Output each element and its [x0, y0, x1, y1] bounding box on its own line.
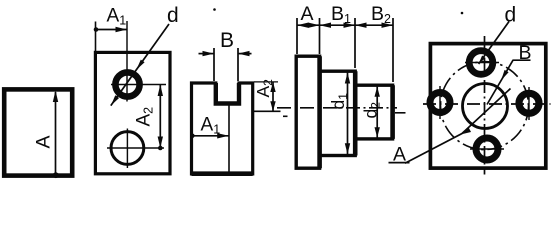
extension line B left (part 3) — [213, 48, 215, 81]
center line horizontal (part 5) — [423, 103, 551, 105]
arrowhead right at ext4 (part 4) — [382, 23, 394, 28]
hole ring bottom (part 5) — [476, 138, 498, 160]
arrowhead on leader at ring edge (part 2) — [136, 60, 144, 70]
arrowhead at leader end (part 2) — [111, 95, 119, 105]
hole ring right (part 5) — [519, 93, 539, 113]
svg-text:B: B — [220, 29, 234, 52]
step edge vertical (part 3) — [228, 104, 230, 173]
junction dot (part 1 dim A bottom) — [53, 172, 59, 178]
arrowhead down (part 4 d2) — [375, 127, 380, 137]
junction dot (part 2 A1 left) — [94, 27, 99, 32]
slot U profile thick (part 3) — [216, 83, 239, 104]
small right edge emphasis (part 4) — [390, 85, 395, 139]
arrowhead up (part 4 d2) — [375, 87, 380, 97]
dimension line A2 (part 3) — [272, 82, 274, 111]
bottom edge emphasis (part 3) — [192, 171, 253, 176]
bottom circle (part 2) — [111, 132, 144, 165]
center line vertical (part 2 bottom circle) — [126, 129, 128, 169]
crosshair top hole (part 5) — [465, 62, 499, 64]
dimension line A1 (part 3) — [192, 135, 229, 137]
leader line B (part 5) — [487, 60, 513, 104]
view direction line A (part 5 diagonal) — [405, 89, 511, 164]
flange right edge emphasis (part 4) — [317, 56, 322, 168]
hole ring top (part 5) — [469, 51, 493, 75]
dimension line B right segment (part 3) — [238, 53, 252, 55]
dimension line A2 (part 2) — [159, 85, 161, 149]
center line horizontal (part 2 top hole / A2 top extension) — [111, 84, 166, 86]
dimension line B left segment (part 3) — [199, 53, 215, 55]
big central circle (part 5) — [463, 84, 508, 129]
extension line (part 2 A1 left, above plate) — [95, 22, 97, 53]
center line vertical (part 2 top hole + A1 extension) — [126, 21, 128, 102]
mid section rect (part 4) — [320, 71, 356, 155]
arrowhead d leader (part 5) — [479, 56, 486, 65]
leader line d (part 2, diameter line through hole) — [111, 24, 169, 106]
arrowhead down (part 3 dim A2) — [270, 101, 275, 111]
underline of label B (part 5) — [513, 59, 531, 61]
part 5: flange plate, outline — [430, 44, 545, 169]
center line tail dash (part 4 right) — [395, 112, 406, 114]
svg-text:d: d — [505, 4, 517, 27]
arrowhead on diagonal A (part 5) — [460, 127, 472, 135]
arrowhead up (part 2 dim A2) — [158, 85, 163, 97]
extension line 1 (part 4 chain) — [296, 18, 298, 54]
dimension line chain A,B1,B2 (part 4) — [297, 24, 393, 26]
leader line d (part 5) — [479, 22, 509, 65]
arrowhead up (part 1 dim A) — [53, 91, 58, 103]
bolt circle (part 5, dash-dot) — [441, 62, 529, 150]
part 3: block with slot, outline — [192, 83, 253, 174]
arrowhead right (part 3 dim B left) — [203, 51, 215, 56]
svg-text:A: A — [33, 135, 55, 148]
extension line (part 3 A2 top) — [254, 81, 278, 83]
arrowhead left (part 3 dim B right) — [238, 51, 250, 56]
crosshair left hole (part 5) — [439, 86, 441, 119]
arrowhead down (part 2 dim A2) — [158, 137, 163, 149]
mid right edge emphasis (part 4) — [353, 71, 358, 155]
svg-text:A: A — [301, 3, 314, 25]
extension line 4 (part 4 chain) — [392, 18, 394, 82]
svg-text:d: d — [167, 4, 179, 27]
arrowhead right (part 3 dim A1) — [217, 133, 229, 138]
part 2: plate with two holes, outline — [95, 52, 170, 173]
arrowhead B leader (part 5) — [501, 70, 509, 81]
arrowhead left at ext1 (part 4) — [297, 23, 309, 28]
junction dot (part 3 A1 left) — [190, 134, 195, 139]
stray dash (part 3, right of A2 extension) — [283, 115, 288, 117]
center line (part 4 shaft axis, dash-dot) — [277, 107, 397, 109]
hole ring left (part 5) — [430, 93, 450, 113]
center line vertical (part 5) — [484, 36, 486, 175]
arrowheads at ext3 (part 4) — [344, 23, 356, 28]
arrowheads at ext2 (part 4) — [308, 23, 320, 28]
arrowhead down (part 4 d1) — [345, 143, 350, 154]
dimension line A (part 1) — [55, 92, 57, 176]
underline of label A — [389, 162, 410, 164]
arrowhead right (part 2 dim A1) — [116, 27, 128, 32]
arrowhead up (part 4 d1) — [345, 73, 350, 84]
crosshair bottom hole (part 5) — [470, 148, 504, 150]
extension line 3 (part 4 chain) — [354, 18, 356, 68]
dimension line d2 (part 4 small) — [376, 87, 378, 138]
center line horizontal (part 2 bottom circle / A2 bottom extension) — [107, 147, 164, 149]
arrowhead up (part 3 dim A2) — [270, 82, 275, 92]
extension line 2 (part 4 chain) — [319, 18, 321, 54]
junction dot (part 2 A2 bottom) — [158, 146, 163, 151]
small section rect (part 4) — [355, 85, 392, 139]
dimension line d1 (part 4 mid) — [347, 73, 349, 155]
crosshair right hole (part 5) — [528, 87, 530, 120]
hole d ring (part 2 top hole) — [115, 72, 139, 96]
scan speck 1 — [213, 8, 216, 11]
scan speck 2 — [461, 12, 464, 15]
extension line (part 3 A2 bottom) — [253, 110, 281, 112]
part 4: stepped shaft, flange rect — [296, 56, 319, 168]
dimension line A1 (part 2 top) — [96, 29, 128, 31]
part 1: plain plate, side view outline — [4, 89, 72, 175]
extension line B right (part 3) — [237, 48, 239, 81]
